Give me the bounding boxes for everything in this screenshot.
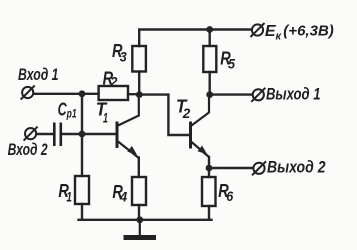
- node cap junction: [79, 131, 86, 138]
- wire R2 right to node: [128, 93, 139, 95]
- wire input node down to cap node: [81, 94, 83, 134]
- wire R6 top: [208, 168, 210, 177]
- wire top rail: [139, 30, 251, 47]
- wire output1: [210, 93, 253, 95]
- wire R5 drop from rail: [208, 30, 210, 47]
- svg-text:3: 3: [120, 49, 127, 65]
- wire node to T2 base: [139, 95, 189, 135]
- terminal input2: [24, 127, 38, 141]
- svg-text:5: 5: [228, 55, 235, 71]
- terminal Ek: [251, 23, 265, 37]
- node output1 junction: [206, 91, 213, 98]
- svg-text:6: 6: [226, 188, 233, 204]
- wire R3 bottom to node: [138, 72, 140, 95]
- resistor R3: [132, 46, 146, 72]
- resistor R5: [203, 46, 216, 72]
- svg-text:1: 1: [103, 110, 108, 126]
- svg-text:2: 2: [182, 105, 191, 121]
- resistor R1: [75, 176, 89, 204]
- capacitor Cp1: [54, 123, 61, 147]
- node rail R5 junction: [206, 26, 213, 33]
- svg-text:Вход 2: Вход 2: [8, 141, 48, 159]
- node output2 junction: [206, 165, 213, 172]
- svg-text:р1: р1: [66, 107, 77, 121]
- wire output2: [209, 167, 253, 169]
- wire cap to junction: [62, 133, 83, 135]
- svg-text:к: к: [276, 31, 283, 43]
- wire cap to T1 base: [82, 133, 116, 135]
- ground: [124, 220, 157, 238]
- transistor T1: [117, 95, 139, 158]
- svg-text:4: 4: [119, 188, 128, 204]
- svg-text:1: 1: [66, 188, 72, 204]
- wire R5 bottom to output node: [208, 72, 210, 95]
- resistor R6: [202, 177, 216, 206]
- wire input2 to cap: [37, 133, 54, 135]
- svg-text:Выход 1: Выход 1: [266, 86, 321, 104]
- wire cap node down to R1: [81, 134, 83, 176]
- svg-text:Выход 2: Выход 2: [267, 159, 326, 177]
- transistor T2: [191, 95, 210, 157]
- wire T2 emitter down to output2 node: [208, 157, 210, 168]
- wire bottom rail: [79, 219, 212, 221]
- wire R1 bottom to rail: [81, 204, 83, 220]
- node ground junction: [136, 216, 143, 223]
- terminal output2: [252, 161, 266, 175]
- wire input1: [34, 93, 99, 95]
- svg-text:(+6,3В): (+6,3В): [283, 23, 334, 40]
- node input1 junction: [79, 90, 86, 97]
- svg-text:Вход 1: Вход 1: [18, 66, 59, 84]
- terminal output1: [251, 88, 265, 102]
- resistor R4: [132, 177, 146, 205]
- svg-text:2: 2: [110, 74, 118, 90]
- wire R4 bottom to rail: [138, 205, 140, 220]
- wire R6 bottom to rail: [208, 206, 210, 220]
- wire T1 emitter down to R4: [138, 158, 140, 178]
- resistor R2: [99, 86, 128, 100]
- terminal input1: [21, 86, 35, 100]
- node R2/R3 junction: [136, 91, 143, 98]
